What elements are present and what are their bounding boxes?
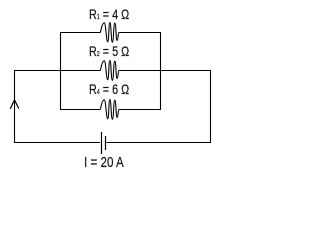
resistor R1 <box>100 23 119 43</box>
label I = 20 A <box>84 154 124 171</box>
wire: outer right vertical <box>210 70 212 143</box>
wire: inner right vertical bus <box>160 32 162 110</box>
label R4 = 6 ohm <box>89 81 129 97</box>
wire: bottom right segment <box>107 142 212 144</box>
wire: outer left vertical <box>14 70 16 143</box>
wire: R4 branch left segment <box>60 109 100 111</box>
wire: R1 branch left segment <box>60 32 100 34</box>
wire: R1 branch right segment <box>119 32 161 34</box>
wire: R4 branch right segment <box>119 109 161 111</box>
label R2 = 5 ohm <box>89 43 129 59</box>
current direction arrow <box>10 100 19 109</box>
resistor R2 <box>100 61 119 81</box>
battery V1 long plate <box>101 132 103 154</box>
resistor R4 <box>100 100 119 120</box>
battery V1 short plate <box>105 136 107 150</box>
wire: bottom left segment <box>14 142 100 144</box>
label R1 = 4 ohm <box>89 6 129 22</box>
wire: R2 branch left segment <box>14 70 100 72</box>
wire: inner left vertical bus <box>60 32 62 110</box>
wire: R2 branch right segment <box>119 70 211 72</box>
